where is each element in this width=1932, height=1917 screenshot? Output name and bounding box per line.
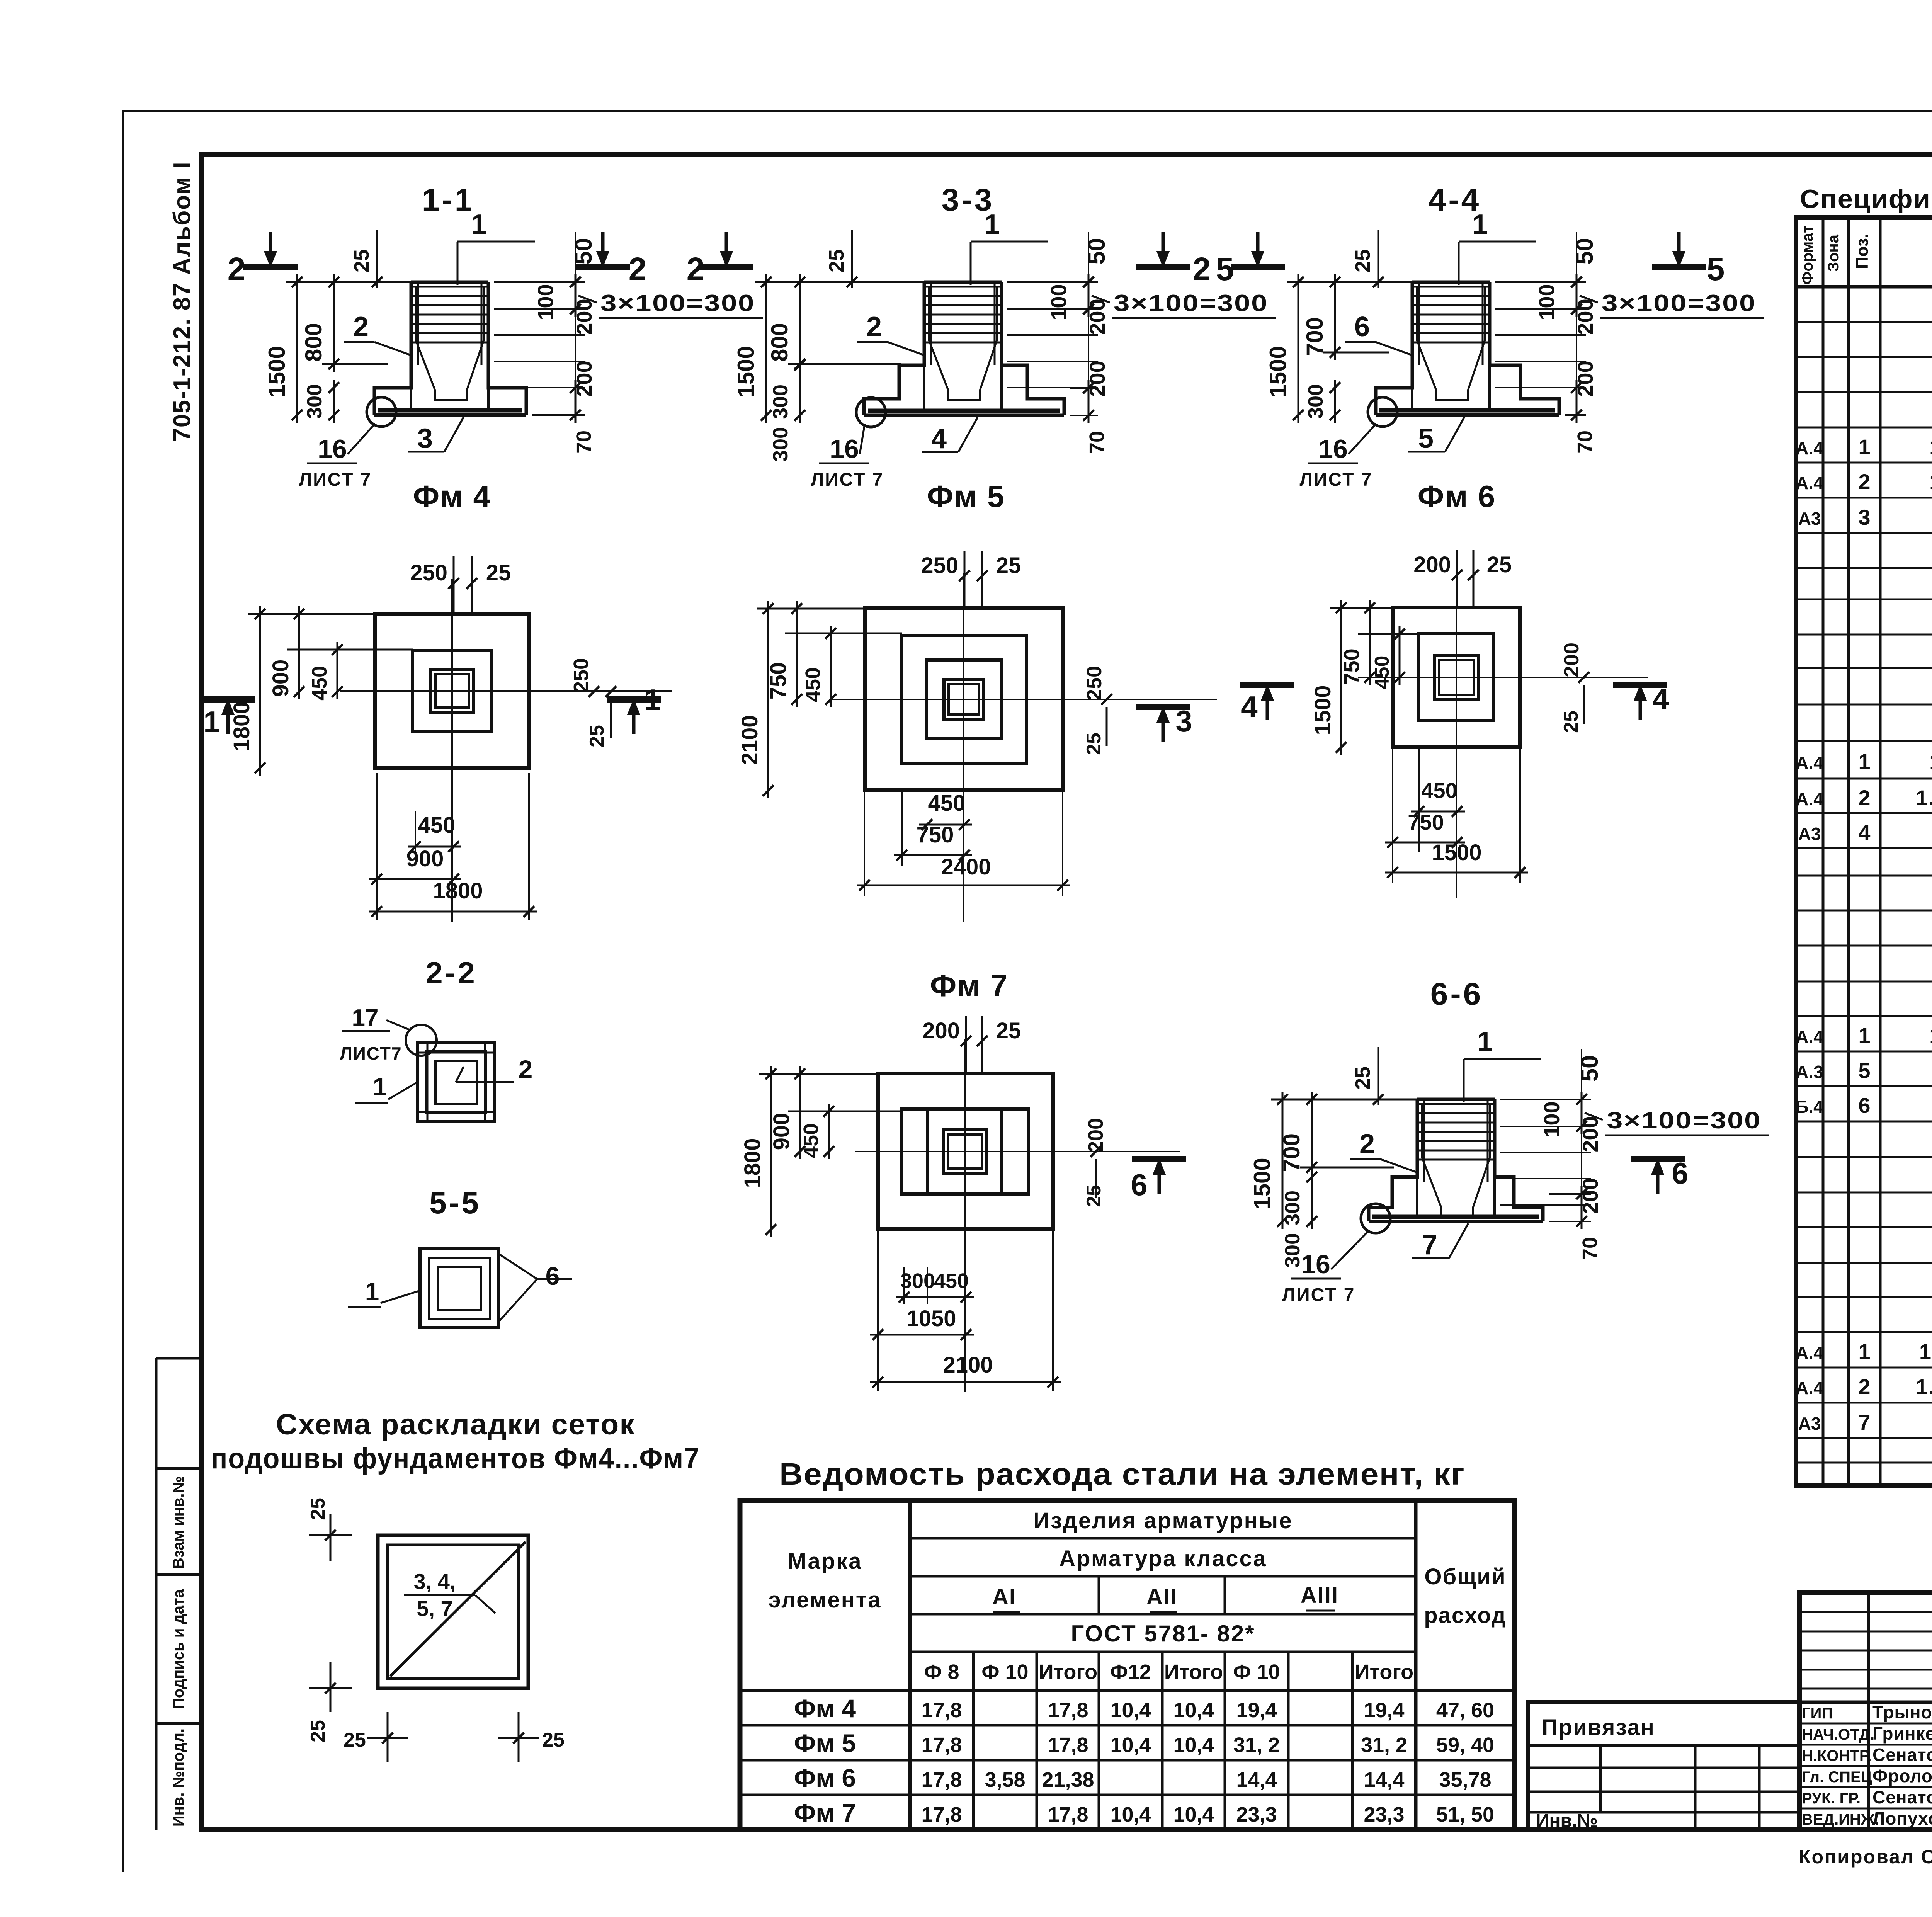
svg-text:3×100=300: 3×100=300	[600, 290, 755, 316]
svg-text:450: 450	[418, 813, 456, 838]
plan Fm5 section mark 3	[1136, 704, 1190, 710]
section mark 2 right of 3-3	[1136, 264, 1190, 270]
svg-text:1.412-1/77 - В.3 - 100: 1.412-1/77 - В.3 - 100	[1916, 786, 1932, 810]
plan Fm5 column	[944, 680, 983, 719]
svg-text:17,8: 17,8	[1048, 1803, 1088, 1826]
svg-text:25: 25	[486, 560, 511, 585]
svg-text:5: 5	[1216, 251, 1234, 287]
svg-text:25: 25	[1083, 1185, 1105, 1207]
svg-text:800: 800	[301, 323, 327, 362]
section 4-4 leader pos mid	[1376, 342, 1413, 356]
svg-text:Марка: Марка	[788, 1549, 862, 1574]
svg-text:1: 1	[1858, 1023, 1870, 1048]
svg-text:900: 900	[769, 1113, 794, 1150]
section 6-6 dim 300 left	[1311, 1169, 1313, 1229]
schema dim 25 bottom	[387, 1712, 389, 1762]
svg-text:10,4: 10,4	[1110, 1803, 1151, 1826]
section 2-2 detail circle 17	[406, 1025, 437, 1056]
section 1-1 dim 1500 left	[296, 274, 298, 423]
svg-text:3: 3	[1175, 704, 1192, 738]
svg-text:1: 1	[203, 705, 220, 739]
svg-text:17,8: 17,8	[1048, 1699, 1088, 1722]
section 4-4 dim 70 bottom right	[1565, 414, 1586, 416]
section 3-3 detail circle 16	[856, 398, 886, 427]
svg-text:2-2: 2-2	[425, 956, 477, 990]
svg-text:2100: 2100	[737, 715, 762, 765]
inner drawing frame	[202, 155, 1932, 1830]
plan Fm4 bottom dims	[408, 846, 461, 848]
plan Fm5 left dims	[767, 601, 769, 798]
svg-text:1: 1	[365, 1277, 379, 1306]
plan Fm6 centerlines	[1456, 573, 1457, 898]
svg-text:50: 50	[1577, 1055, 1603, 1082]
svg-text:расход: расход	[1424, 1603, 1506, 1628]
section 3-3 leader pos slab	[958, 417, 978, 452]
svg-text:1-1: 1-1	[422, 182, 475, 218]
svg-text:1.412-1/77- В.3 - 020: 1.412-1/77- В.3 - 020	[1919, 1339, 1932, 1364]
svg-text:47, 60: 47, 60	[1436, 1699, 1494, 1722]
schema dim 25 bottom left	[330, 1662, 332, 1712]
section 4-4 dim 25 top	[1378, 230, 1379, 288]
section 3-3 dim 1500 left	[765, 274, 767, 423]
section mark 2 left of 3-3	[699, 264, 753, 270]
svg-text:1: 1	[471, 209, 486, 240]
svg-text:14,4: 14,4	[1236, 1768, 1277, 1791]
section 5-5 inner square	[438, 1267, 481, 1310]
svg-text:1800: 1800	[740, 1138, 765, 1188]
svg-text:700: 700	[1302, 317, 1328, 356]
svg-text:25: 25	[1560, 711, 1582, 733]
section 4-4 dim 300 left	[1334, 380, 1336, 423]
svg-text:25: 25	[1487, 552, 1512, 577]
plan Fm7 column	[944, 1130, 987, 1173]
svg-text:2: 2	[629, 251, 647, 287]
svg-text:23,3: 23,3	[1236, 1803, 1277, 1826]
section 4-4 leader pos slab	[1445, 417, 1464, 452]
section 6-6 dim 1500 left	[1282, 1092, 1284, 1229]
section 2-2 inner square	[435, 1061, 477, 1104]
svg-text:59, 40: 59, 40	[1436, 1733, 1494, 1757]
svg-text:6-6: 6-6	[1430, 976, 1483, 1012]
svg-text:250: 250	[410, 560, 447, 585]
svg-text:2400: 2400	[941, 854, 991, 879]
svg-text:А.4: А.4	[1796, 1378, 1823, 1398]
section 3-3 dim 300 left	[799, 357, 801, 423]
svg-text:1500: 1500	[1249, 1158, 1275, 1209]
svg-text:Гринкевич: Гринкевич	[1872, 1723, 1932, 1744]
section mark 5 left of 4-4	[1231, 264, 1285, 270]
svg-text:3: 3	[417, 423, 433, 454]
svg-text:70: 70	[1085, 431, 1109, 454]
svg-text:70: 70	[1578, 1237, 1602, 1260]
svg-text:1800: 1800	[433, 878, 483, 903]
svg-text:1.412-1/77 - В.3 - 100: 1.412-1/77 - В.3 - 100	[1916, 1374, 1932, 1399]
plan Fm4 outer slab	[375, 614, 529, 768]
svg-text:5-5: 5-5	[429, 1186, 481, 1220]
section 3-3 column sides into base	[923, 365, 925, 411]
svg-text:6: 6	[1354, 311, 1370, 342]
section 3-3 socket trapezoid	[929, 287, 997, 400]
svg-text:25: 25	[996, 1018, 1021, 1043]
svg-text:Гл. СПЕЦ: Гл. СПЕЦ	[1802, 1769, 1872, 1786]
section 6-6 leader pos slab	[1449, 1223, 1468, 1258]
section 4-4 column with rebar cage	[1412, 281, 1490, 284]
svg-text:Арматура класса: Арматура класса	[1059, 1546, 1267, 1571]
section 1-1 right extension lines and dims	[494, 281, 585, 283]
svg-text:АIII: АIII	[1301, 1583, 1338, 1608]
section 4-4 label 3x100=300	[1580, 296, 1598, 303]
svg-text:450: 450	[1421, 778, 1457, 803]
svg-text:ЛИСТ 7: ЛИСТ 7	[1282, 1285, 1355, 1305]
svg-text:23,3: 23,3	[1364, 1803, 1404, 1826]
svg-text:300: 300	[900, 1269, 935, 1293]
svg-text:Копировал Семахина: Копировал Семахина	[1799, 1846, 1932, 1868]
plan Fm5 bottom dims	[919, 824, 972, 826]
section 4-4 detail circle 16	[1368, 397, 1397, 427]
svg-text:1500: 1500	[1310, 685, 1335, 735]
svg-text:300: 300	[769, 427, 792, 462]
svg-text:6: 6	[1131, 1168, 1147, 1202]
section 1-1 body outline	[374, 282, 411, 415]
svg-text:50: 50	[1083, 238, 1110, 265]
section 6-6 body outline	[1369, 1099, 1417, 1221]
svg-text:2: 2	[1858, 1374, 1870, 1399]
svg-text:3×100=300: 3×100=300	[1602, 290, 1756, 316]
plan Fm7 middle step	[902, 1109, 1028, 1194]
svg-text:300: 300	[1281, 1233, 1304, 1268]
svg-text:1.412-1/77-В.3-020: 1.412-1/77-В.3-020	[1929, 435, 1932, 459]
svg-text:1.412-1/77-В.3-100: 1.412-1/77-В.3-100	[1929, 469, 1932, 494]
svg-text:450: 450	[934, 1269, 969, 1293]
svg-text:4: 4	[931, 424, 947, 454]
svg-text:ЛИСТ 7: ЛИСТ 7	[811, 469, 884, 490]
plan Fm7 mesh strip lines	[926, 1111, 929, 1196]
svg-text:А.4: А.4	[1796, 438, 1823, 458]
svg-text:Спецификация элементов фунда: Спецификация элементов фундаментов Фм 4 …	[1800, 184, 1932, 214]
svg-text:ВЕД.ИНЖ.: ВЕД.ИНЖ.	[1802, 1811, 1879, 1828]
svg-text:16: 16	[830, 434, 859, 464]
svg-text:2100: 2100	[943, 1352, 993, 1378]
svg-text:Зона: Зона	[1825, 234, 1842, 272]
svg-text:Ф 10: Ф 10	[1233, 1660, 1280, 1684]
plan Fm4 column	[431, 670, 473, 712]
schema diagonal	[390, 1542, 526, 1676]
plan Fm6 top dims 200 25	[1456, 550, 1458, 608]
svg-text:Схема раскладки сеток: Схема раскладки сеток	[276, 1408, 635, 1441]
svg-text:3×100=300: 3×100=300	[1114, 290, 1268, 316]
svg-text:10,4: 10,4	[1173, 1803, 1214, 1826]
svg-text:750: 750	[917, 822, 954, 847]
svg-text:17: 17	[352, 1005, 379, 1031]
section 3-3 slab bottom with mesh	[864, 414, 1064, 417]
svg-text:подошвы фундаментов Фм4...Фм: подошвы фундаментов Фм4...Фм7	[211, 1442, 700, 1475]
svg-text:25: 25	[307, 1498, 329, 1520]
section 1-1 leader pos slab	[444, 417, 464, 452]
section 1-1 socket trapezoid	[416, 287, 484, 400]
steel table grid	[740, 1500, 1515, 1830]
svg-text:1: 1	[1477, 1026, 1493, 1057]
section 1-1 column sides into base	[410, 388, 412, 410]
section 4-4 body outline	[1376, 282, 1412, 415]
svg-text:900: 900	[268, 660, 293, 697]
svg-text:Сенаторов: Сенаторов	[1872, 1787, 1932, 1807]
svg-text:ЛИСТ 7: ЛИСТ 7	[1300, 469, 1373, 490]
plan Fm5 right dims 250 25	[1101, 694, 1112, 705]
section mark 5 right of 4-4	[1652, 264, 1706, 270]
plan Fm6 middle step	[1419, 634, 1494, 721]
section 4-4 column sides into base	[1411, 388, 1413, 410]
svg-text:Лопухова: Лопухова	[1872, 1808, 1932, 1829]
svg-text:250: 250	[921, 553, 958, 578]
svg-text:450: 450	[308, 666, 331, 701]
svg-text:1: 1	[1858, 1339, 1870, 1364]
section 3-3 right extension lines and dims	[1007, 281, 1098, 283]
svg-text:50: 50	[1571, 238, 1598, 265]
svg-text:Итого: Итого	[1039, 1660, 1097, 1684]
svg-text:6: 6	[546, 1262, 560, 1290]
plan Fm7 bottom dims	[896, 1296, 974, 1298]
section 4-4 dim 800 left	[1334, 274, 1336, 360]
svg-text:4: 4	[1858, 820, 1870, 845]
section 3-3 dim 70 bottom right	[1070, 415, 1098, 416]
svg-text:300: 300	[303, 384, 326, 419]
section 3-3 leader pos.1	[970, 242, 972, 285]
schema dim 25 top left	[330, 1514, 332, 1561]
svg-text:А3: А3	[1798, 824, 1821, 844]
svg-text:25: 25	[344, 1729, 366, 1751]
svg-text:17,8: 17,8	[921, 1733, 962, 1757]
svg-text:1: 1	[984, 209, 1000, 240]
svg-text:250: 250	[570, 658, 593, 693]
svg-text:Н.КОНТР.: Н.КОНТР.	[1802, 1747, 1872, 1764]
plan Fm7 section marks 6	[1132, 1156, 1186, 1162]
svg-text:7: 7	[1422, 1230, 1437, 1260]
svg-text:19,4: 19,4	[1236, 1699, 1277, 1722]
svg-text:800: 800	[767, 323, 793, 362]
svg-text:200: 200	[1560, 643, 1583, 677]
svg-text:7: 7	[1858, 1410, 1870, 1434]
svg-text:25: 25	[586, 725, 608, 747]
svg-text:НАЧ.ОТД.: НАЧ.ОТД.	[1802, 1726, 1874, 1743]
svg-text:А3: А3	[1798, 1414, 1821, 1434]
svg-text:705-1-212. 87 Альбом I: 705-1-212. 87 Альбом I	[169, 161, 196, 441]
privyazan block	[1528, 1702, 1799, 1830]
svg-text:300: 300	[1281, 1191, 1304, 1225]
section 6-6 column with rebar cage	[1417, 1098, 1495, 1101]
svg-text:1: 1	[644, 683, 660, 717]
svg-text:3, 4,: 3, 4,	[414, 1569, 456, 1594]
svg-text:21,38: 21,38	[1042, 1768, 1094, 1791]
svg-text:2: 2	[866, 311, 882, 342]
svg-text:Ф12: Ф12	[1110, 1660, 1151, 1684]
svg-text:Сенаторов: Сенаторов	[1872, 1745, 1932, 1765]
svg-text:19,4: 19,4	[1364, 1699, 1404, 1722]
svg-text:1500: 1500	[1432, 840, 1481, 865]
svg-text:750: 750	[766, 662, 791, 700]
svg-text:Фм 6: Фм 6	[1418, 479, 1496, 514]
section 1-1 detail circle 16	[367, 397, 396, 427]
svg-text:элемента: элемента	[768, 1587, 881, 1613]
main title block	[1799, 1592, 1932, 1830]
plan Fm6 section marks 4	[1240, 682, 1294, 688]
svg-text:300: 300	[769, 384, 792, 419]
svg-text:4: 4	[1652, 682, 1669, 716]
svg-text:Общий: Общий	[1424, 1564, 1506, 1589]
svg-text:450: 450	[801, 667, 825, 702]
section 6-6 column sides into base	[1416, 1177, 1418, 1217]
svg-text:А.4: А.4	[1796, 789, 1823, 809]
svg-text:2: 2	[228, 251, 246, 287]
svg-text:4: 4	[1241, 690, 1257, 724]
section 6-6 leader pos mid	[1381, 1159, 1418, 1173]
section mark 2 right of 1-1	[576, 264, 630, 270]
svg-text:Инв. №подл.: Инв. №подл.	[170, 1728, 187, 1827]
schema mesh square	[378, 1535, 528, 1688]
svg-text:14,4: 14,4	[1364, 1768, 1404, 1791]
section 1-1 dim 800 left	[333, 274, 335, 372]
svg-text:Фм 4: Фм 4	[794, 1694, 856, 1723]
svg-text:2: 2	[1858, 786, 1870, 810]
svg-text:17,8: 17,8	[1048, 1733, 1088, 1757]
svg-text:Фм 7: Фм 7	[930, 968, 1008, 1003]
section 1-1 column with rebar cage	[411, 281, 488, 284]
svg-text:10,4: 10,4	[1110, 1733, 1151, 1757]
plan Fm4 top dims 250 25	[453, 556, 455, 614]
plan Fm6 right dims 200 25	[1578, 672, 1589, 683]
svg-text:750: 750	[1339, 648, 1364, 684]
svg-text:Подпись и дата: Подпись и дата	[170, 1589, 187, 1709]
svg-text:Ф 8: Ф 8	[924, 1660, 959, 1684]
svg-text:25: 25	[996, 553, 1021, 578]
svg-text:6: 6	[1858, 1093, 1870, 1118]
svg-text:А.4: А.4	[1796, 753, 1823, 773]
svg-text:70: 70	[572, 430, 595, 454]
svg-text:Привязан: Привязан	[1542, 1715, 1655, 1740]
plan Fm5 middle step	[901, 635, 1026, 764]
svg-text:Итого: Итого	[1164, 1660, 1223, 1684]
plan Fm7 left dims	[770, 1066, 772, 1237]
svg-text:Ведомость расхода стали на: Ведомость расхода стали на элемент, кг	[779, 1457, 1465, 1491]
section 6-6 dim 25 top	[1378, 1047, 1379, 1105]
svg-text:200: 200	[1084, 1118, 1107, 1153]
section 3-3 body outline	[864, 282, 924, 415]
section 2-2 mesh square	[418, 1043, 495, 1122]
section 6-6 leader pos.1	[1463, 1059, 1465, 1102]
svg-text:1800: 1800	[229, 701, 254, 751]
section 4-4 right extension lines and dims	[1495, 281, 1586, 283]
svg-text:Фм 4: Фм 4	[413, 479, 491, 514]
svg-text:1050: 1050	[906, 1306, 956, 1331]
plan Fm4 centerlines	[451, 579, 453, 922]
section mark 2 left of 1-1	[243, 264, 298, 270]
svg-text:200: 200	[922, 1018, 960, 1043]
svg-text:17,8: 17,8	[921, 1768, 962, 1791]
svg-text:3×100=300: 3×100=300	[1607, 1107, 1761, 1133]
svg-text:100: 100	[1046, 284, 1071, 320]
svg-text:1.412-1/77-В.3-020: 1.412-1/77-В.3-020	[1929, 749, 1932, 774]
svg-text:16: 16	[1318, 434, 1348, 464]
section 4-4 slab bottom with mesh	[1376, 413, 1559, 417]
svg-text:100: 100	[1539, 1101, 1564, 1137]
svg-text:А3: А3	[1798, 509, 1821, 529]
svg-text:300: 300	[1304, 384, 1327, 419]
plan Fm4 middle step	[413, 651, 492, 731]
svg-text:5: 5	[1707, 251, 1725, 287]
plan Fm7 top dims 200 25	[965, 1016, 967, 1074]
section 3-3 label 3x100=300	[1092, 296, 1110, 303]
svg-text:3,58: 3,58	[985, 1768, 1025, 1791]
spec table grid	[1796, 218, 1932, 1486]
svg-text:100: 100	[533, 284, 558, 320]
svg-text:2: 2	[353, 311, 369, 342]
section 1-1 slab bottom with mesh	[374, 413, 526, 417]
svg-text:Взам инв.№: Взам инв.№	[170, 1476, 187, 1569]
svg-text:16: 16	[1301, 1250, 1330, 1279]
svg-text:1: 1	[1858, 435, 1870, 459]
svg-text:25: 25	[307, 1720, 329, 1742]
svg-text:1500: 1500	[1265, 346, 1291, 397]
plan Fm7 right dims 200 25	[1090, 1146, 1101, 1157]
svg-text:Фм 7: Фм 7	[794, 1798, 856, 1827]
svg-text:17,8: 17,8	[921, 1699, 962, 1722]
section 1-1 dim 25 top	[376, 230, 378, 288]
section 6-6 dim 800 left	[1311, 1092, 1313, 1175]
svg-text:ЛИСТ7: ЛИСТ7	[340, 1043, 402, 1063]
svg-text:Фм 6: Фм 6	[794, 1764, 856, 1792]
svg-text:ГИП: ГИП	[1802, 1705, 1833, 1722]
svg-text:Формат: Формат	[1799, 225, 1816, 284]
svg-text:250: 250	[1083, 666, 1106, 701]
svg-text:900: 900	[406, 846, 444, 871]
svg-text:2: 2	[519, 1055, 533, 1084]
section 3-3 dim 800 left	[799, 274, 801, 372]
svg-text:25: 25	[1351, 1067, 1374, 1090]
svg-text:200: 200	[1413, 552, 1451, 577]
svg-text:ЛИСТ 7: ЛИСТ 7	[299, 469, 372, 490]
section 6-6 slab bottom with mesh	[1369, 1220, 1543, 1223]
svg-text:5: 5	[1858, 1058, 1870, 1083]
svg-text:25: 25	[825, 249, 848, 272]
plan Fm4 left dims	[259, 606, 261, 776]
svg-text:А.3: А.3	[1796, 1062, 1823, 1082]
svg-text:А.4: А.4	[1796, 1343, 1823, 1363]
svg-text:Фролова: Фролова	[1872, 1766, 1932, 1786]
svg-text:450: 450	[1371, 656, 1393, 689]
svg-text:25: 25	[542, 1729, 565, 1751]
plan Fm4 right dims 250 25	[588, 686, 599, 697]
svg-text:10,4: 10,4	[1173, 1733, 1214, 1757]
plan Fm6 bottom dims	[1411, 811, 1465, 813]
svg-text:1500: 1500	[264, 346, 290, 397]
section 1-1 dim 70 bottom right	[532, 414, 585, 416]
svg-text:25: 25	[350, 249, 373, 272]
svg-text:25: 25	[1083, 733, 1105, 755]
svg-text:1.412-1/77-В.3-020: 1.412-1/77-В.3-020	[1929, 1023, 1932, 1048]
svg-text:1: 1	[1472, 209, 1488, 240]
svg-text:2: 2	[1193, 251, 1211, 287]
svg-text:ГОСТ 5781- 82*: ГОСТ 5781- 82*	[1071, 1621, 1255, 1647]
svg-text:Ф 10: Ф 10	[981, 1660, 1028, 1684]
section 1-1 label 3x100=300	[578, 296, 597, 303]
section 3-3 dim 25 top	[851, 230, 853, 288]
svg-text:Итого: Итого	[1355, 1660, 1413, 1684]
svg-text:450: 450	[928, 791, 966, 816]
svg-text:АI: АI	[992, 1584, 1016, 1609]
left margin strip	[155, 1358, 158, 1830]
svg-text:Поз.: Поз.	[1853, 233, 1872, 269]
section 1-1 dim 300 left	[333, 380, 335, 423]
section 1-1 leader pos mid	[374, 342, 412, 356]
